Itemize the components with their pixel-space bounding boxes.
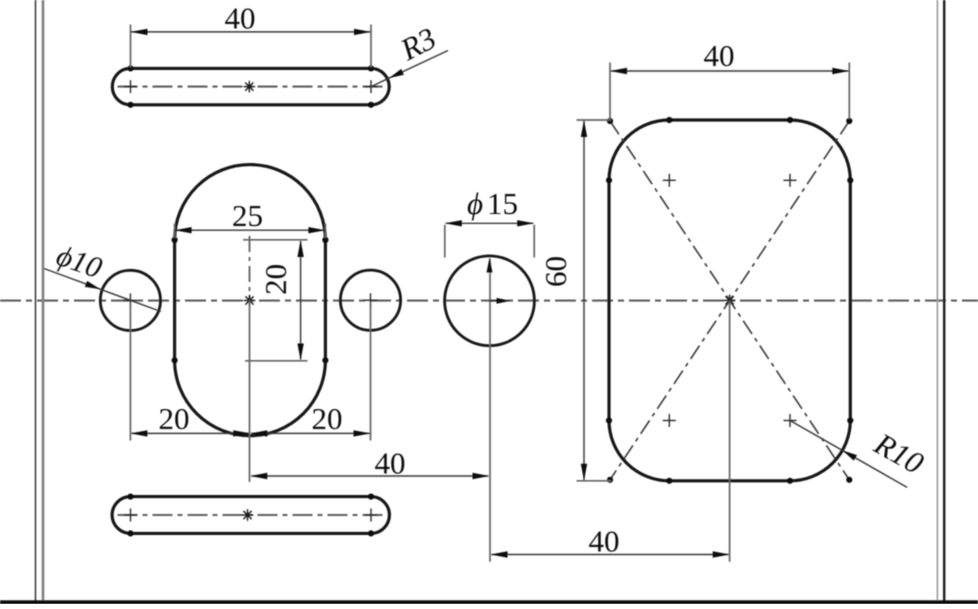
obround O1 extension line down: [249, 300, 251, 482]
dimension 20 vertical line: [297, 240, 303, 361]
obround O1 center star: [244, 295, 256, 307]
circle C1 extension line down: [129, 302, 131, 441]
obround O1 tangent dots: [172, 237, 329, 364]
R10 text: [868, 425, 930, 481]
svg-text:ϕ: ϕ: [467, 186, 483, 221]
dimension 40 line (obround to phi15): [250, 473, 489, 479]
slot S1 center star: [244, 81, 256, 93]
R3 leader line: [371, 51, 448, 87]
dimension phi15 text: [467, 186, 518, 221]
slot S1 left center mark: [124, 80, 137, 93]
dimension 40 extension lines (slot S1): [131, 25, 372, 68]
circle C2 extension line down: [370, 302, 372, 441]
dimension 20 left line: [130, 430, 250, 436]
slot S2 right center mark: [365, 509, 378, 522]
slot S1 outline (40 long, R3 ends): [112, 68, 389, 104]
dimension 25 extension lines: [175, 224, 326, 239]
R3 text: [394, 20, 441, 67]
dimension 25 text: [232, 198, 263, 233]
circle C1 center mark: [123, 293, 137, 307]
R10 leader line: [790, 421, 907, 488]
rectangle R1 extension line down: [729, 300, 731, 561]
dimension 20 vertical text: [258, 264, 293, 295]
rectangle R1 diagonal centerline B: [610, 121, 849, 480]
rectangle R1 diagonal centerline A: [610, 121, 849, 480]
circle C3 right arrow: [490, 298, 511, 304]
dimension 20 left text: [159, 401, 190, 436]
svg-text:20: 20: [159, 401, 190, 436]
rectangle R1 corner arc center marks: [663, 174, 797, 427]
dimension 60 line: [581, 120, 587, 481]
svg-text:40: 40: [375, 446, 406, 481]
svg-text:40: 40: [225, 0, 256, 35]
dimension 60 extension lines: [577, 120, 612, 481]
circle C1 (phi10 left): [100, 270, 160, 330]
svg-text:20: 20: [312, 401, 343, 436]
svg-text:20: 20: [258, 264, 293, 295]
slot S1 centerline: [118, 86, 385, 88]
slot S1 tangent point dots: [127, 65, 374, 108]
phi10 leader line: [44, 269, 161, 312]
dimension 20 vertical extension lines: [243, 240, 308, 361]
dimension 60 text: [538, 256, 573, 287]
svg-text:60: 60: [538, 256, 573, 287]
dimension 40 line (slot S1): [131, 29, 372, 35]
rectangle R1 corner dots: [607, 118, 853, 483]
slot S1 right center mark: [365, 80, 378, 93]
circle C3 vertical line: [489, 259, 491, 562]
rectangle R1 tangent dots: [606, 117, 854, 484]
circle C2 center mark: [364, 293, 378, 307]
dimension phi15 extension lines: [445, 225, 534, 258]
slot S2 outline (duplicate slot below): [112, 497, 389, 534]
circle C3 up arrow: [487, 258, 493, 273]
phi10 text: [52, 239, 106, 285]
slot S2 tangent point dots: [127, 494, 374, 537]
dimension 40 text (phi15 to rect): [589, 524, 620, 559]
rounded rectangle R1 outline (40x60, R10): [609, 120, 850, 481]
slot S2 left center mark: [124, 509, 137, 522]
svg-text:15: 15: [487, 186, 518, 221]
dimension 40 line (rect): [610, 68, 849, 74]
dimension 40 text (obround to phi15): [375, 446, 406, 481]
slot S2 centerline: [118, 514, 385, 516]
dimension 20 right line: [250, 430, 370, 436]
horizontal centerline (global axis): [0, 300, 978, 302]
dimension phi15 line: [445, 220, 534, 226]
rectangle R1 center star: [724, 295, 736, 307]
svg-text:40: 40: [589, 524, 620, 559]
dimension 40 text (slot S1): [225, 0, 256, 35]
obround O1 vertical centerline: [249, 236, 251, 300]
circle C3 (phi15): [445, 256, 535, 346]
dimension 25 line: [175, 227, 326, 233]
svg-text:25: 25: [232, 198, 263, 233]
dimension 40 text (rect): [704, 38, 735, 73]
dimension 40 extension lines (rect): [610, 63, 849, 120]
svg-text:40: 40: [704, 38, 735, 73]
obround O1 outline (25 wide, straight 20): [175, 165, 326, 436]
slot S2 center star: [242, 509, 254, 521]
dimension 40 line (phi15 to rect): [491, 551, 730, 557]
dimension 20 right text: [312, 401, 343, 436]
circle C2 (phi10 right): [340, 270, 400, 330]
